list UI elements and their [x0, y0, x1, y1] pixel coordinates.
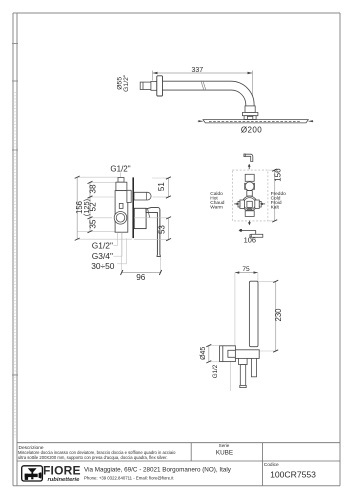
valve cartridge hex [245, 182, 255, 191]
leader lines bottom labels [114, 232, 127, 263]
extension lines left dims [77, 177, 132, 239]
mixer body [115, 191, 128, 233]
valve main body circle [242, 196, 257, 211]
valve bottom port [245, 211, 254, 217]
wall line [132, 177, 134, 238]
cold labels [271, 191, 287, 211]
dimension 51 [152, 177, 171, 198]
dimension Ø45 [200, 344, 220, 363]
hand shower body [249, 281, 258, 347]
bottom arrow [248, 221, 251, 226]
spout collar [127, 190, 131, 202]
faint dotted texture between border lines [14, 92, 16, 438]
dashed mounting box [232, 170, 268, 221]
left inlet port [238, 200, 244, 208]
svg-text:Codice: Codice [264, 462, 279, 468]
bottom elbow fitting [250, 234, 263, 237]
control circle [114, 212, 127, 225]
svg-text:Serie: Serie [219, 443, 230, 448]
svg-text:KUBE: KUBE [216, 450, 233, 457]
dimension 106 [238, 229, 256, 245]
spout outlet [134, 192, 151, 200]
wall threaded stub [140, 82, 151, 89]
svg-text:Ø200: Ø200 [241, 125, 262, 134]
svg-text:FIORE: FIORE [43, 463, 81, 477]
shower head disc (side view) [203, 120, 308, 123]
hose connector nut [239, 358, 248, 364]
nozzle dots on disc [209, 121, 301, 123]
svg-text:Kalt: Kalt [271, 205, 280, 211]
tube break mark [201, 81, 206, 91]
inner square [247, 201, 252, 207]
wall water outlet flange [220, 346, 236, 362]
svg-text:230: 230 [274, 308, 283, 322]
svg-text:75: 75 [242, 266, 250, 273]
shower arm tube with bend [163, 81, 255, 106]
right arrow (cold inlet) [260, 203, 265, 205]
left arrow (hot inlet) [234, 203, 239, 205]
dimension Ø200 [198, 120, 314, 134]
dim ticks [75, 176, 93, 240]
hot labels [210, 191, 224, 211]
wall flange [157, 76, 163, 96]
svg-text:ultra sottile 200X200 mm, supp: ultra sottile 200X200 mm, supporto con p… [18, 455, 168, 460]
svg-text:96: 96 [136, 273, 146, 282]
svg-text:30÷50: 30÷50 [91, 261, 115, 271]
leader for G1/2 [229, 362, 231, 391]
svg-text:G1/2": G1/2" [92, 240, 113, 250]
dimension 156 / (125) lines [77, 177, 90, 239]
svg-text:51: 51 [157, 182, 166, 191]
label Ø55 G1/2" (rotated) [116, 74, 130, 92]
svg-text:Ø45: Ø45 [200, 347, 207, 360]
FIORE logo box [22, 466, 43, 481]
svg-text:G1/2: G1/2 [212, 364, 219, 378]
mixer union nut [116, 182, 127, 190]
set screw [119, 203, 123, 208]
hand shower lower handle [251, 358, 256, 376]
svg-text:G1/2": G1/2" [110, 165, 130, 174]
arm connector sleeve [151, 81, 157, 90]
svg-text:G3/4": G3/4" [92, 251, 113, 261]
svg-text:35: 35 [89, 219, 98, 229]
shower holder block [235, 350, 259, 359]
dimension 230 [258, 280, 283, 352]
right inlet port [255, 200, 261, 208]
svg-text:156: 156 [274, 168, 283, 182]
svg-text:Warm: Warm [210, 205, 223, 211]
dimension 96 [121, 233, 162, 282]
svg-text:52: 52 [89, 202, 98, 212]
hatch mark below [248, 208, 252, 210]
valve neck [247, 191, 253, 196]
mixer top pipe [118, 178, 124, 183]
svg-text:100CR7553: 100CR7553 [270, 470, 316, 480]
svg-text:38: 38 [89, 184, 98, 194]
svg-text:53: 53 [157, 225, 166, 234]
table grid [17, 443, 340, 486]
valve top port [245, 174, 254, 181]
dimension 75 [235, 266, 258, 350]
swivel connector [242, 106, 258, 120]
fold tick marks on left border [12, 44, 18, 376]
description text [18, 450, 176, 460]
svg-text:rubinetterie: rubinetterie [48, 477, 81, 483]
faucet icon [25, 468, 42, 480]
svg-text:Phone: +39 0322.840711 - Email: Phone: +39 0322.840711 - Email: fiore@fi… [84, 476, 174, 481]
dimension 53 [134, 217, 171, 241]
leader line [120, 173, 122, 178]
svg-text:G1/2": G1/2" [123, 74, 130, 92]
up arrow [248, 164, 251, 170]
top elbow fitting [244, 154, 253, 162]
svg-text:Via Maggiate, 69/C - 28021 Bor: Via Maggiate, 69/C - 28021 Borgomanero (… [84, 466, 232, 473]
dimension 337 [153, 67, 253, 105]
hose tube [240, 365, 245, 386]
dimension 156 (diverter) [268, 168, 282, 222]
handle sleeve [134, 208, 146, 228]
handle lever [146, 208, 160, 257]
